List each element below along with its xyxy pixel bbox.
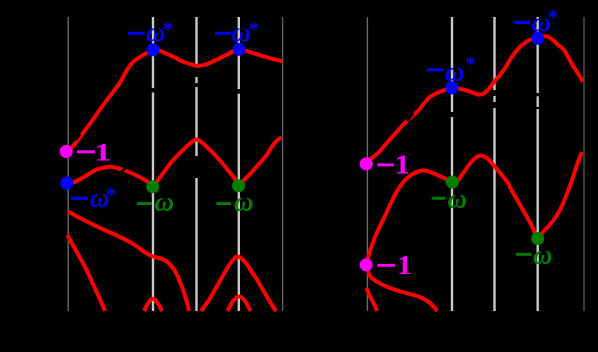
svg-text:1: 1	[395, 150, 411, 180]
svg-text:1: 1	[94, 138, 111, 166]
left panel blue dot -w* (gridline 3)	[233, 43, 246, 56]
left panel: gridline 2	[195, 17, 197, 311]
svg-text:ω: ω	[445, 57, 465, 87]
right panel: gridline 3	[537, 17, 539, 311]
left panel green dot -w (gridline 3)	[232, 179, 245, 192]
right panel: gridline 2	[493, 17, 495, 311]
right panel green dot -w (gridline 3)	[531, 232, 544, 245]
right panel magenta dot -1 (upper)	[360, 157, 373, 170]
black notches where hidden black curves cross red curves	[75, 89, 413, 173]
left panel small red arch G (at gridline 1, bottom)	[144, 299, 162, 311]
left panel magenta dot -1	[60, 145, 73, 158]
right panel: left axis gridline	[366, 17, 368, 311]
left panel red curve B (through -w* and -w dots, middle wave)	[67, 137, 282, 187]
right panel green dot -w (gridline 1)	[446, 176, 459, 189]
left panel: right edge gridline	[282, 17, 284, 311]
right panel red curve D' (short steep segment bottom left)	[366, 288, 377, 311]
svg-text:ω: ω	[155, 187, 175, 217]
svg-text:ω: ω	[234, 187, 254, 217]
svg-text:*: *	[106, 184, 116, 206]
right panel label -1 upper	[377, 150, 410, 180]
left panel label -w at gridline 1	[137, 187, 174, 217]
right panel blue dot -w* (gridline 1)	[446, 81, 459, 94]
right panel magenta dot -1 (lower)	[360, 258, 373, 271]
right panel label -w* at gridline 1	[427, 53, 476, 87]
right panel label -w* at gridline 3 top	[514, 7, 558, 37]
right panel: gridline 1	[451, 17, 453, 311]
right panel blue dot -w* (gridline 3)	[531, 32, 544, 45]
left panel small red arch H (at gridline 3, bottom)	[228, 297, 251, 312]
left panel: left axis gridline	[67, 17, 69, 311]
right panel red curve C' (gentle descent from lower -1 dot)	[366, 265, 437, 311]
left panel label -w at gridline 3	[217, 187, 254, 217]
svg-text:*: *	[249, 19, 259, 41]
right panel label -w at gridline 3	[516, 240, 553, 270]
gridline gaps (hidden black curve crossings)	[151, 67, 541, 178]
right panel red curve B' (from lower -1 dot through green dots)	[366, 152, 582, 265]
left panel: gridline 3	[238, 17, 240, 311]
left panel blue dot -w* (gridline 1)	[147, 43, 160, 56]
right panel: right edge gridline	[583, 17, 585, 311]
svg-text:*: *	[163, 19, 173, 41]
left panel label -1	[77, 138, 111, 166]
left panel label -w* at top gridline 1	[128, 17, 173, 47]
left panel green dot -w (gridline 1)	[146, 180, 159, 193]
right panel label -w at gridline 1	[432, 184, 467, 214]
left panel red curve A (through -1 and -w* dots, top wave)	[67, 49, 283, 152]
svg-text:*: *	[466, 53, 476, 75]
left panel: gridline 1	[152, 17, 154, 311]
left panel red curve D (steep descent from left axis)	[68, 235, 106, 311]
svg-text:ω: ω	[448, 184, 468, 214]
left panel label -w* at axis dot	[71, 182, 116, 212]
svg-text:*: *	[548, 7, 558, 29]
left panel blue dot -w* (on axis)	[60, 177, 73, 190]
left panel red curve C (gentle descent from left axis)	[68, 212, 189, 312]
left panel label -w* at top gridline 3	[215, 17, 259, 47]
left panel red arch F (large arch at gridline 3)	[201, 256, 276, 311]
svg-text:ω: ω	[533, 240, 553, 270]
svg-text:1: 1	[397, 251, 412, 280]
right panel red curve A' (top wave through -1 and -w* dots)	[366, 36, 583, 162]
right panel label -1 lower	[378, 251, 412, 280]
